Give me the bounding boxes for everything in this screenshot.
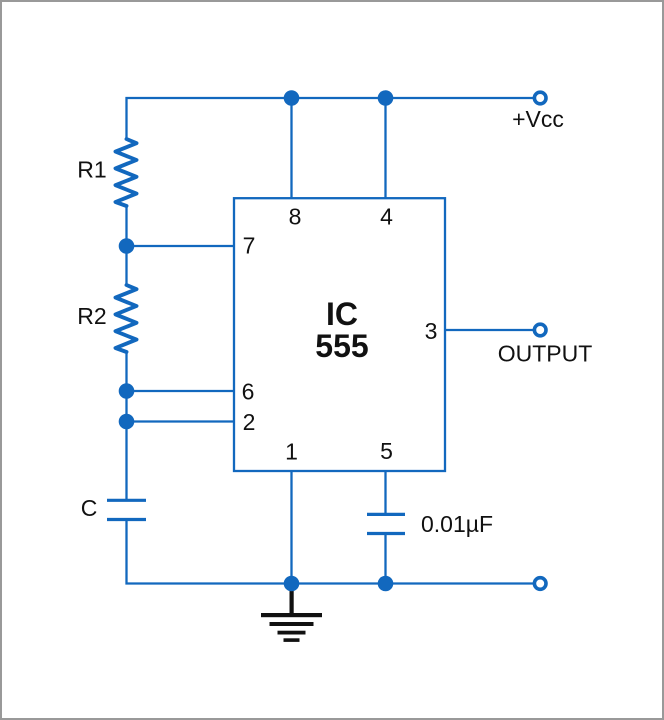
svg-text:5: 5 bbox=[380, 438, 393, 464]
svg-text:3: 3 bbox=[425, 318, 438, 344]
svg-text:R2: R2 bbox=[77, 303, 106, 329]
svg-text:0.01µF: 0.01µF bbox=[421, 511, 493, 537]
svg-text:IC: IC bbox=[326, 296, 358, 332]
svg-text:555: 555 bbox=[315, 328, 368, 364]
svg-text:1: 1 bbox=[285, 439, 298, 465]
svg-text:+Vcc: +Vcc bbox=[512, 106, 564, 132]
svg-text:R1: R1 bbox=[77, 157, 106, 183]
svg-text:8: 8 bbox=[289, 204, 302, 230]
svg-text:2: 2 bbox=[243, 409, 256, 435]
svg-text:4: 4 bbox=[380, 204, 393, 230]
svg-text:OUTPUT: OUTPUT bbox=[498, 341, 593, 367]
svg-text:7: 7 bbox=[243, 233, 256, 259]
svg-text:C: C bbox=[81, 495, 98, 521]
svg-text:6: 6 bbox=[242, 379, 255, 405]
